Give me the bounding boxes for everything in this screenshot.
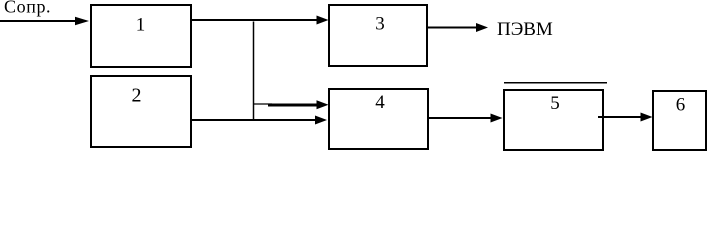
svg-text:ПЭВМ: ПЭВМ bbox=[497, 19, 553, 40]
svg-text:6: 6 bbox=[676, 95, 686, 116]
svg-text:2: 2 bbox=[132, 85, 142, 107]
svg-text:1: 1 bbox=[136, 15, 146, 36]
svg-text:Сопр.: Сопр. bbox=[4, 0, 51, 17]
svg-text:5: 5 bbox=[550, 93, 560, 114]
svg-text:3: 3 bbox=[375, 14, 385, 35]
svg-text:4: 4 bbox=[375, 92, 385, 113]
